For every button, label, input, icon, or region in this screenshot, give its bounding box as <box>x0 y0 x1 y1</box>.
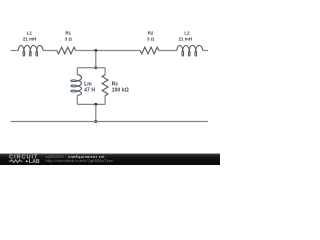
inductor Lm (vertical) <box>71 75 82 96</box>
wire: right branch top stub <box>104 68 106 75</box>
svg-text:3 Ω: 3 Ω <box>147 36 155 41</box>
svg-text:R1: R1 <box>65 30 71 35</box>
wire: right branch bottom stub <box>104 96 106 105</box>
svg-text:3 Ω: 3 Ω <box>65 36 73 41</box>
svg-text:http://circuitlab.com/c/7g655d: http://circuitlab.com/c/7g655dp73ar/ <box>46 159 114 163</box>
svg-text:LAB: LAB <box>29 159 40 165</box>
resistor R2 <box>140 47 159 54</box>
svg-text:L1: L1 <box>27 30 33 35</box>
svg-text:21 mH: 21 mH <box>23 36 37 41</box>
node: shunt top junction <box>94 66 97 69</box>
wire: bottom rail <box>11 121 208 123</box>
node: top junction <box>94 49 97 52</box>
wire: top-right lead <box>203 50 208 52</box>
node: shunt bottom junction <box>94 103 97 106</box>
node: bottom rail junction <box>94 120 97 123</box>
wire: top-left lead <box>11 50 19 52</box>
svg-text:100 kΩ: 100 kΩ <box>112 87 129 93</box>
wire: shunt bottom bar <box>77 103 105 105</box>
inductor L1 <box>18 45 43 56</box>
resistor Rc (vertical) <box>102 75 108 96</box>
wire: left branch top stub <box>76 68 78 75</box>
wire: L1 to R1 <box>43 50 57 52</box>
logo node diamond <box>26 160 28 162</box>
wire: R2 to L2 <box>159 50 177 52</box>
svg-text:21 mH: 21 mH <box>178 36 192 41</box>
wire: node down to shunt <box>95 51 97 68</box>
wire: left branch bottom stub <box>76 96 78 105</box>
resistor R1 <box>57 47 76 54</box>
wire: R1 to R2 through node <box>76 50 141 52</box>
svg-text:L2: L2 <box>184 30 190 35</box>
inductor L2 <box>177 45 203 56</box>
wire: shunt top bar <box>77 67 105 69</box>
logo resistor zigzag <box>9 160 22 163</box>
svg-text:47 H: 47 H <box>84 87 95 93</box>
svg-text:R2: R2 <box>148 30 154 35</box>
watermark bar <box>0 154 220 166</box>
wire: shunt down to bottom rail <box>95 104 97 121</box>
